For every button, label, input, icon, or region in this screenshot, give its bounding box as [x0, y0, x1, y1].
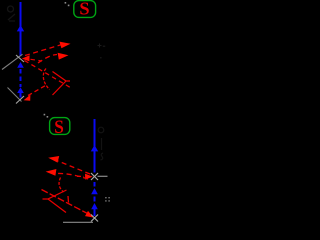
arrowhead of second ray	[58, 53, 69, 60]
wire: dashed red tail of X3 arrow	[77, 175, 84, 177]
faint ghost marks right of top ray	[98, 44, 106, 58]
direction arrowhead lower (blue, bottom dashed line)	[91, 203, 98, 209]
velocity arrowhead mid line top panel	[17, 25, 24, 31]
big chevron arrowhead outline bottom panel	[43, 190, 67, 213]
direction arrowhead upper (blue, on dashed line)	[17, 62, 24, 68]
red arc wavefront top panel	[43, 69, 49, 90]
red arc wavefront bottom panel	[59, 178, 63, 193]
node X1: cross stroke	[16, 55, 24, 62]
arrowhead of upper-right ray	[59, 42, 70, 49]
source box S1 (green rounded rect)	[74, 1, 96, 18]
arrow head into X3 (red, pointing right)	[85, 174, 93, 180]
wire: blue trajectory line top panel (solid)	[20, 2, 22, 56]
cursor dots left of S2	[44, 114, 49, 118]
direction arrowhead lower (blue, on dashed line)	[17, 87, 24, 93]
arrowhead of second ray bottom panel	[46, 169, 57, 176]
node X2: gray trail diagonal	[8, 88, 22, 102]
node X3: gray line to the right	[98, 175, 108, 177]
node X4: cross	[91, 215, 98, 222]
wire: blue trajectory line bottom panel (solid)	[94, 119, 96, 173]
node X3: cross	[91, 173, 98, 180]
svg-text:S: S	[54, 117, 64, 138]
faint ghost glyphs top-left	[8, 6, 16, 21]
wire: red dashed ray from X1 to upper right	[25, 45, 61, 56]
arrow head into X2 (red, pointing down-left)	[24, 95, 31, 101]
wire: dashed red tail of X1 arrow	[31, 59, 43, 61]
arrow head into X4 (red, pointing down-right)	[85, 211, 94, 218]
wire: long dashed red line X1 to lower right	[25, 61, 73, 89]
wire: long dashed red line into X4	[42, 190, 88, 214]
direction arrowhead upper (blue, bottom dashed line)	[91, 188, 98, 194]
node X2: cross stroke	[16, 96, 24, 104]
source box S2 (green rounded rect)	[50, 118, 70, 135]
red vertical dash below arc	[67, 196, 70, 203]
gray colon dots right of bottom dashed line	[105, 197, 110, 202]
velocity arrowhead mid line bottom panel	[91, 145, 98, 151]
cursor dots left of S1	[65, 2, 70, 6]
wire: red dashed second ray (curved)	[38, 55, 57, 64]
wire: red dashed ray from X3 to upper left	[58, 161, 90, 174]
arrow head into X1 (red, pointing left)	[22, 55, 30, 61]
big chevron arrowhead outline top panel	[53, 72, 71, 96]
wire: dashed red tail of X2 arrow	[28, 86, 46, 96]
wire: blue dashed trajectory below X1	[20, 69, 22, 98]
svg-text:S: S	[79, 0, 89, 19]
wire: blue dashed trajectory below X3	[94, 182, 96, 216]
arrowhead of upper-left ray bottom panel	[48, 156, 59, 163]
wire: red dashed second ray bottom panel	[57, 173, 88, 179]
node X4: gray line to the left	[63, 221, 93, 223]
node X1: long gray sight-line	[2, 54, 23, 69]
faint ghost glyphs right edge bottom panel	[98, 127, 104, 160]
